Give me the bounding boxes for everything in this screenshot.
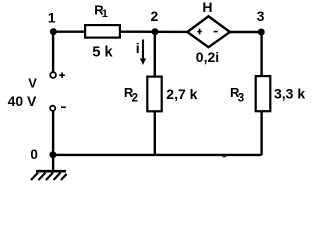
svg-text:V: V: [28, 76, 37, 91]
wire node3 down to R3: [260, 32, 262, 77]
svg-text:0,2i: 0,2i: [196, 49, 219, 65]
ground bar: [36, 170, 66, 173]
wire diamond to node 3: [230, 31, 262, 33]
svg-text:2,7 k: 2,7 k: [166, 86, 197, 102]
svg-text:0: 0: [30, 147, 38, 162]
node 1: [50, 28, 57, 35]
svg-text:3: 3: [257, 8, 265, 24]
svg-text:3,3 k: 3,3 k: [274, 86, 305, 102]
wire R3 down to bottom rail: [260, 112, 262, 155]
current arrow i: [142, 40, 144, 60]
svg-text:5 k: 5 k: [92, 45, 113, 61]
svg-text:1: 1: [48, 10, 56, 26]
svg-text:i: i: [136, 40, 140, 56]
svg-text:40 V: 40 V: [8, 93, 37, 109]
resistor R2: [147, 77, 161, 112]
ground stem: [52, 155, 54, 170]
node 3: [258, 29, 265, 36]
svg-text:H: H: [202, 0, 212, 15]
wire R2 down to bottom rail: [154, 112, 156, 156]
wire node2 down to R2: [154, 32, 156, 77]
wire R1 to diamond: [120, 31, 188, 34]
bottom rail wire: [53, 154, 262, 156]
wire node1 down to source plus terminal: [52, 32, 54, 72]
dependent source H diamond: [187, 16, 230, 47]
svg-text:1: 1: [102, 8, 108, 20]
plus sign in diamond: [197, 29, 202, 35]
plus sign at source: [59, 72, 65, 78]
artifact dash on bottom wire: [222, 156, 226, 158]
ground hatch: [31, 173, 67, 180]
minus sign at source: [61, 106, 66, 108]
node 2: [152, 28, 159, 35]
minus sign in diamond: [214, 31, 218, 33]
svg-text:3: 3: [238, 93, 244, 105]
svg-text:2: 2: [132, 92, 138, 104]
node 0: [49, 151, 56, 158]
resistor R1: [85, 25, 120, 37]
resistor R3: [256, 76, 271, 111]
wire source down to node 0: [52, 111, 54, 155]
svg-text:2: 2: [151, 8, 159, 24]
voltage source minus terminal: [50, 106, 55, 111]
voltage source plus terminal: [50, 72, 56, 78]
wire node1 to R1: [53, 31, 86, 33]
